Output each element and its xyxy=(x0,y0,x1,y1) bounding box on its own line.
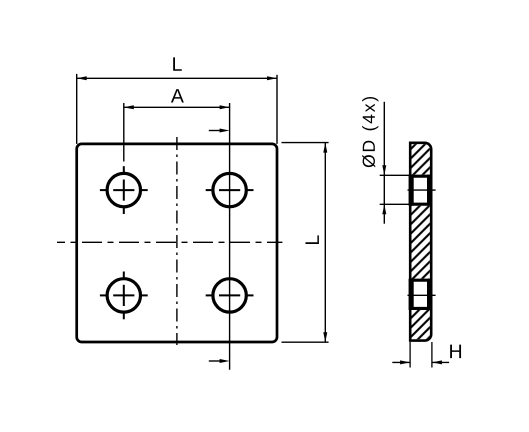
hole top-right center marks xyxy=(206,189,254,191)
hole bottom-left center marks xyxy=(100,272,148,320)
hole 1 section: left wall xyxy=(409,175,414,206)
dimension L top: left arrowhead xyxy=(77,76,87,80)
plate outline (front square) xyxy=(77,144,277,342)
dimension H: right segment xyxy=(432,361,449,363)
dimension D: extension line bottom xyxy=(380,203,410,205)
hole 1 section: white bore xyxy=(414,178,427,203)
dimension L right: bottom arrowhead xyxy=(323,332,327,342)
dimension D: up arrowhead xyxy=(382,204,386,214)
dimension A: dimension line xyxy=(124,106,230,108)
dimension H: right arrowhead xyxy=(432,360,442,364)
dimension L right: extension line top xyxy=(282,142,329,144)
dimension A: left arrowhead xyxy=(124,105,134,109)
horizontal center line (dash-dot) xyxy=(57,241,282,243)
hatch fill bands xyxy=(408,144,434,340)
dimension L right: extension line bottom xyxy=(282,341,329,343)
hole 1 section: bottom edge xyxy=(409,203,433,206)
hole top-left circle xyxy=(107,173,140,206)
dimension D: down arrowhead xyxy=(382,165,386,175)
hole 2 section: top edge xyxy=(409,279,433,282)
vertical center line (dashed) xyxy=(176,137,178,345)
label H xyxy=(450,345,461,358)
hole 2 section: white bore xyxy=(414,282,427,307)
hole 2 section: left wall xyxy=(409,279,414,310)
hole bottom-right center marks xyxy=(206,294,254,296)
dimension H: left segment xyxy=(392,361,410,363)
leader arrow upper (points at hole axis) xyxy=(209,130,223,132)
hole top-left center marks xyxy=(100,166,148,214)
hole 1 section: top edge xyxy=(409,175,433,178)
dimension H: extension line right xyxy=(431,342,433,368)
label A xyxy=(171,89,184,102)
dimension A / position line right (continuous) xyxy=(229,103,231,370)
dimension L top: extension line left xyxy=(76,74,78,144)
label L right (rotated) xyxy=(305,235,318,244)
hole 2 section: right wall xyxy=(427,279,432,310)
dimension H: left arrowhead xyxy=(400,360,410,364)
hole 2 center line xyxy=(408,294,436,296)
dimension A: right arrowhead xyxy=(220,105,230,109)
side plate outline xyxy=(410,143,431,341)
dimension D: leader line xyxy=(383,102,385,224)
label L top xyxy=(173,57,182,70)
hole 2 section: bottom edge xyxy=(409,307,433,310)
dimension L right: top arrowhead xyxy=(323,143,327,153)
dimension L top: right arrowhead xyxy=(267,76,277,80)
leader arrow lower (points at hole axis) xyxy=(209,360,223,362)
label OD (4x) rotated xyxy=(362,97,378,167)
hole bottom-left circle xyxy=(107,279,140,312)
dimension L top: extension line right xyxy=(276,75,278,144)
hole top-right circle xyxy=(213,173,246,206)
dimension A: extension line left xyxy=(123,103,125,162)
dimension H: extension line left xyxy=(409,342,411,368)
dimension L right: dimension line xyxy=(324,143,326,343)
hole 1 center line xyxy=(408,189,436,191)
hole bottom-right circle xyxy=(213,279,246,312)
dimension L top: dimension line xyxy=(77,77,277,79)
dimension D: extension line top xyxy=(380,174,410,176)
hole 1 section: right wall xyxy=(427,175,432,206)
